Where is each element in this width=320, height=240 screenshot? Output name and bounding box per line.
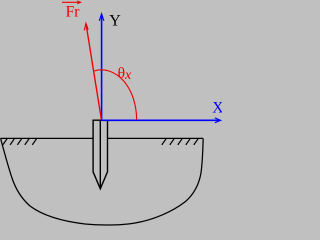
X axis [101,118,220,123]
ground line right of pile [108,137,204,139]
ground line left of pile [1,137,94,139]
svg-text:θx: θx [118,65,132,83]
force vector Fr [84,23,101,119]
ground hatching right [162,139,198,145]
pile outline [93,120,107,189]
ground hatching left [3,139,37,145]
Y axis [99,14,104,121]
label Fr with vector arrow [62,1,81,4]
svg-text:Fr: Fr [66,4,81,21]
soil failure surface curve (bowl) [1,138,204,225]
pile center line [99,120,101,188]
svg-text:Y: Y [109,12,121,29]
svg-text:X: X [212,99,222,116]
angle arc theta_x [94,70,136,120]
